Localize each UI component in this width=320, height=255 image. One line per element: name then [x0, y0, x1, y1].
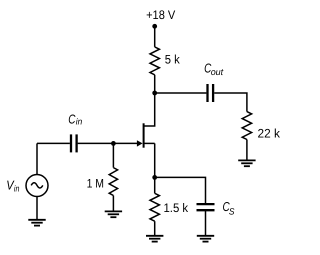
svg-text:S: S: [229, 207, 235, 217]
capacitor Cin: [70, 134, 72, 152]
wire R1 bottom to drain node: [154, 75, 156, 93]
wire Cout to output corner and down to R3: [214, 93, 247, 112]
wire source node right to CS: [155, 177, 206, 203]
wire source tap down to source node: [154, 143, 156, 177]
svg-text:+18 V: +18 V: [146, 8, 176, 22]
AC source sine wave: [31, 183, 43, 188]
resistor R1 5 k: [150, 47, 159, 75]
source node junction dot: [152, 175, 157, 180]
drain node junction dot: [152, 91, 157, 96]
svg-text:1 M: 1 M: [87, 176, 104, 190]
ground under R2: [146, 236, 163, 242]
ground under 22 k: [238, 160, 255, 166]
svg-text:1.5 k: 1.5 k: [164, 201, 189, 215]
resistor R3 22 k: [242, 112, 251, 140]
JFET gate wire: [113, 142, 138, 144]
wire Vin to ground: [36, 197, 38, 220]
resistor R2 1.5 k: [150, 193, 159, 221]
capacitor Cout: [206, 84, 208, 102]
transistor Q1 JFET channel bar: [143, 123, 145, 147]
ground under CS: [197, 236, 214, 242]
supply terminal dot: [152, 24, 157, 29]
wire R3 to ground: [246, 140, 248, 161]
wire Cin right plate to gate junction: [78, 142, 114, 144]
AC source Vin circle: [26, 175, 48, 197]
svg-text:22 k: 22 k: [258, 126, 281, 140]
gate junction node dot: [111, 141, 116, 146]
wire source node down to R2: [154, 177, 156, 193]
wire R2 to ground: [154, 221, 156, 236]
ground under RG: [105, 211, 122, 217]
capacitor CS: [197, 203, 215, 205]
wire CS to ground: [205, 210, 207, 236]
wire Vin top to Cin left plate: [37, 142, 70, 144]
JFET gate arrowhead: [137, 140, 143, 146]
resistor RG 1 M: [109, 168, 117, 196]
wire gate junction down to RG: [112, 143, 114, 167]
wire supply dot to R1 top: [154, 26, 156, 47]
JFET source tap: [144, 142, 155, 144]
svg-text:in: in: [14, 183, 20, 193]
svg-text:out: out: [211, 67, 224, 77]
wire drain node down to JFET drain: [144, 93, 155, 126]
svg-text:C: C: [68, 111, 76, 126]
wire RG to ground: [112, 196, 114, 212]
svg-text:in: in: [76, 117, 83, 127]
wire drain node to Cout: [155, 92, 207, 94]
ground under Vin: [28, 220, 45, 226]
svg-text:5 k: 5 k: [165, 52, 181, 66]
wire down to Vin source: [36, 143, 38, 174]
